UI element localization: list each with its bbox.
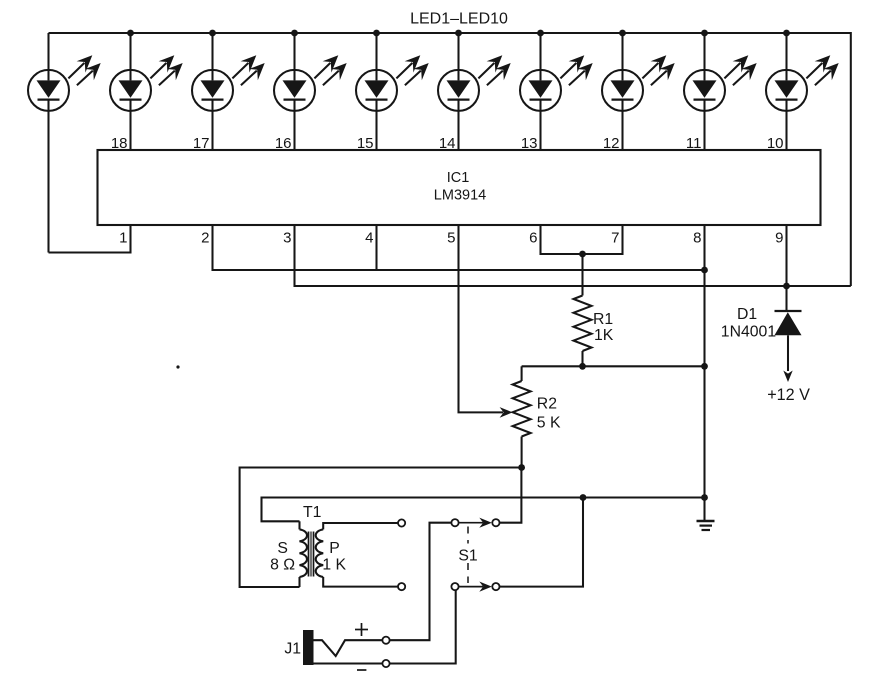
- junction dot ground line S1 branch: [580, 494, 587, 501]
- svg-text:T1: T1: [303, 504, 322, 521]
- svg-text:+12 V: +12 V: [767, 386, 810, 404]
- LED LED3: [192, 33, 265, 150]
- label minus: [357, 669, 366, 671]
- LED LED9: [684, 33, 757, 150]
- svg-text:IC1: IC1: [447, 170, 470, 186]
- wire J1 tip contact: [313, 640, 382, 656]
- switch S1: [451, 518, 499, 592]
- LED LED5: [356, 33, 429, 150]
- svg-text:2: 2: [201, 230, 209, 247]
- junction dot on anode rail: [455, 30, 462, 37]
- svg-text:1N4001: 1N4001: [721, 324, 777, 341]
- svg-text:R1: R1: [593, 311, 613, 328]
- svg-text:17: 17: [193, 135, 210, 152]
- junction dot on anode rail: [701, 30, 708, 37]
- svg-text:16: 16: [275, 135, 292, 152]
- terminal J1 minus: [382, 660, 389, 667]
- svg-text:12: 12: [603, 135, 620, 152]
- junction dot on anode rail: [783, 30, 790, 37]
- svg-text:LED1–LED10: LED1–LED10: [410, 11, 508, 28]
- svg-text:1K: 1K: [594, 327, 614, 344]
- wire pin 5 to R2 wiper: [459, 225, 504, 412]
- svg-text:18: 18: [111, 135, 128, 152]
- junction dot on anode rail: [291, 30, 298, 37]
- wire S1 lower output to ground line: [499, 498, 583, 587]
- potentiometer R2 5K: [513, 366, 561, 467]
- wire pin 2 bus line A: [213, 225, 705, 270]
- terminal P top: [398, 519, 405, 526]
- wire pin 8 vertical to ground: [703, 225, 705, 521]
- svg-text:LM3914: LM3914: [434, 188, 486, 204]
- junction dot pin 9 / D1: [783, 283, 790, 290]
- resistor R1 1K: [574, 254, 614, 366]
- junction dot on anode rail: [127, 30, 134, 37]
- svg-text:S1: S1: [458, 548, 478, 565]
- wire top anode rail to V+ drop: [49, 33, 851, 286]
- label plus: [355, 623, 368, 636]
- wire pin 4 stub: [375, 225, 377, 270]
- wire pin 9 stub: [785, 225, 787, 286]
- svg-text:14: 14: [439, 135, 456, 152]
- svg-text:3: 3: [283, 230, 291, 247]
- junction dot R2 bottom: [518, 464, 525, 471]
- junction dot on anode rail: [619, 30, 626, 37]
- LED LED2: [110, 33, 183, 150]
- junction dot ground node: [701, 494, 708, 501]
- wire R1 bottom to pin 8 line: [522, 365, 705, 367]
- svg-text:4: 4: [365, 230, 373, 247]
- LED LED7: [520, 33, 593, 150]
- wire pin 3 bus line B to V+: [295, 225, 851, 286]
- junction dot R1 bottom: [579, 363, 586, 370]
- wire R2 bottom to S1 upper output: [499, 468, 521, 523]
- ground: [697, 521, 715, 530]
- wire pin 1 to LED1 cathode: [49, 225, 131, 253]
- svg-text:J1: J1: [284, 641, 301, 658]
- svg-text:P: P: [329, 540, 340, 557]
- svg-text:5 K: 5 K: [537, 415, 561, 432]
- wire J1 sleeve contact: [313, 662, 382, 664]
- svg-text:S: S: [277, 540, 288, 557]
- wire R2 bottom to transformer secondary: [240, 468, 522, 588]
- svg-text:10: 10: [767, 135, 784, 152]
- svg-text:8 Ω: 8 Ω: [270, 557, 295, 574]
- transformer T1: [270, 504, 398, 587]
- wire J1 plus to S1 upper input: [390, 523, 452, 641]
- svg-text:11: 11: [686, 135, 702, 152]
- junction dot on anode rail: [373, 30, 380, 37]
- LED LED1: [28, 33, 101, 253]
- junction dot R1 line at pin 8: [701, 363, 708, 370]
- svg-text:R2: R2: [537, 396, 557, 413]
- wire J1 minus to S1 lower input: [390, 590, 456, 663]
- svg-text:15: 15: [357, 135, 374, 152]
- wire pins 6-7 link: [541, 225, 623, 254]
- svg-text:8: 8: [693, 230, 701, 247]
- svg-text:D1: D1: [737, 306, 757, 323]
- wire ground net: [262, 498, 705, 522]
- junction dot line A at pin 8: [701, 267, 708, 274]
- svg-text:6: 6: [529, 230, 537, 247]
- svg-text:5: 5: [447, 230, 455, 247]
- svg-text:13: 13: [521, 135, 538, 152]
- svg-text:7: 7: [611, 230, 619, 247]
- connector J1 jack: [284, 630, 313, 665]
- speck: [176, 365, 179, 368]
- diode D1 1N4001: [721, 286, 802, 382]
- junction dot on anode rail: [209, 30, 216, 37]
- op-amp IC U1 LM3914 box: [98, 150, 821, 225]
- LED LED10: [766, 33, 839, 150]
- LED LED6: [438, 33, 511, 150]
- LED LED4: [274, 33, 347, 150]
- junction dot on anode rail: [537, 30, 544, 37]
- junction dot pins 6-7: [579, 251, 586, 258]
- svg-text:1 K: 1 K: [322, 557, 346, 574]
- svg-text:1: 1: [119, 230, 127, 247]
- svg-text:9: 9: [775, 230, 783, 247]
- terminal J1 plus: [382, 637, 389, 644]
- terminal P bottom: [398, 583, 405, 590]
- LED LED8: [602, 33, 675, 150]
